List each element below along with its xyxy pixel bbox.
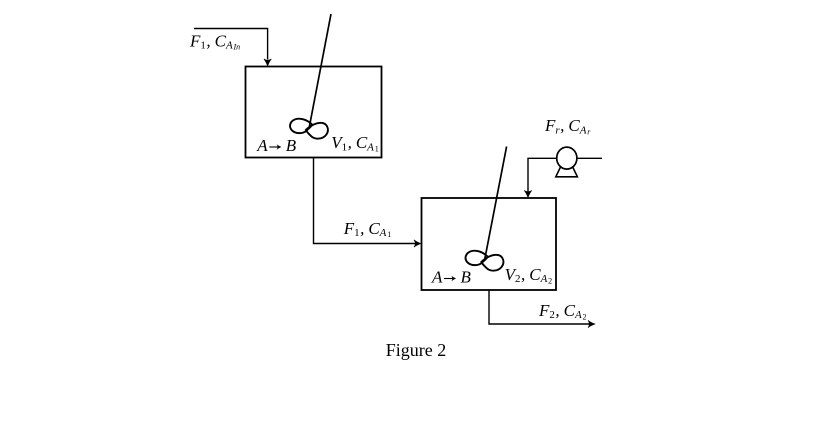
wire: outlet pipe F2 from tank 2 bbox=[489, 290, 589, 324]
feed arrowhead into tank 1 bbox=[264, 59, 271, 66]
svg-text:F1,CAIn: F1,CAIn bbox=[189, 31, 240, 51]
svg-text:Figure 2: Figure 2 bbox=[386, 340, 447, 360]
wire: pipe from tank 1 to tank 2 bbox=[314, 158, 416, 244]
pump base (trapezoid) bbox=[556, 163, 578, 177]
impeller 1 bbox=[290, 119, 328, 139]
tank 1 (CSTR 1) bbox=[246, 67, 382, 158]
svg-text:Fr,CAr: Fr,CAr bbox=[544, 116, 591, 136]
arrowhead into tank 2 left side bbox=[414, 240, 421, 247]
wire: recycle line through pump into tank 2 bbox=[528, 158, 602, 191]
svg-text:AB: AB bbox=[431, 267, 472, 286]
recycle arrowhead into tank 2 top bbox=[524, 191, 531, 198]
label A -> B in tank 1 bbox=[256, 136, 297, 155]
tank 2 (CSTR 2) bbox=[422, 198, 557, 290]
stirrer shaft 2 bbox=[485, 147, 507, 260]
label A -> B in tank 2 bbox=[431, 267, 472, 286]
outlet arrowhead bbox=[588, 320, 595, 327]
svg-text:F1,CA1: F1,CA1 bbox=[343, 219, 392, 239]
svg-text:F2,CA2: F2,CA2 bbox=[538, 301, 587, 321]
svg-text:V1,CA1: V1,CA1 bbox=[331, 133, 379, 153]
wire: feed line F1 into tank 1 bbox=[194, 29, 268, 60]
svg-text:AB: AB bbox=[256, 136, 297, 155]
stirrer shaft 1 bbox=[309, 14, 331, 127]
svg-text:V2,CA2: V2,CA2 bbox=[505, 265, 553, 285]
pump body (circle) bbox=[557, 147, 577, 169]
impeller 2 bbox=[466, 251, 504, 271]
